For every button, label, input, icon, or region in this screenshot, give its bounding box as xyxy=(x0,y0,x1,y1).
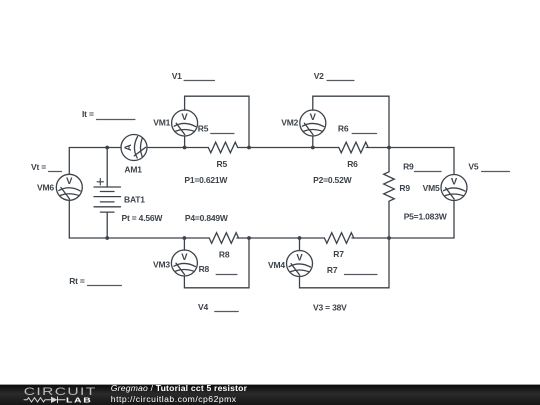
svg-text:R8: R8 xyxy=(199,264,210,274)
voltmeter VM6 xyxy=(56,174,82,200)
svg-text:R9: R9 xyxy=(403,162,414,172)
wire VM1 loop xyxy=(184,136,186,148)
svg-text:Vt =: Vt = xyxy=(31,162,46,172)
wire left vertical xyxy=(68,148,70,175)
resistor R7 xyxy=(324,233,353,244)
ammeter AM1 xyxy=(121,135,147,161)
svg-text:R8: R8 xyxy=(219,249,230,259)
voltmeter VM4 xyxy=(287,251,313,277)
voltmeter VM3 xyxy=(171,250,197,276)
voltmeter VM5 xyxy=(441,175,467,201)
svg-text:It =: It = xyxy=(82,109,94,119)
svg-text:V: V xyxy=(66,176,73,187)
svg-text:R7: R7 xyxy=(333,249,344,259)
svg-text:BAT1: BAT1 xyxy=(124,195,145,205)
battery BAT1 xyxy=(94,179,121,213)
svg-text:V: V xyxy=(181,252,188,263)
svg-text:V4: V4 xyxy=(198,302,208,312)
svg-text:Pt = 4.56W: Pt = 4.56W xyxy=(122,213,164,223)
logo diode xyxy=(57,397,59,403)
svg-text:R9: R9 xyxy=(399,183,410,193)
voltmeter VM1 xyxy=(172,110,198,136)
svg-text:R5: R5 xyxy=(198,124,209,134)
svg-text:P4=0.849W: P4=0.849W xyxy=(185,213,229,223)
svg-text:V: V xyxy=(181,112,188,123)
wire VM4 loop xyxy=(299,238,301,251)
svg-text:V: V xyxy=(451,176,458,187)
svg-text:VM3: VM3 xyxy=(153,259,170,269)
svg-text:V5: V5 xyxy=(468,162,478,172)
resistor R9 xyxy=(384,172,395,201)
logo resistor squiggle xyxy=(24,397,65,403)
svg-text:P1=0.621W: P1=0.621W xyxy=(184,175,228,185)
svg-text:VM5: VM5 xyxy=(423,183,440,193)
svg-text:VM4: VM4 xyxy=(268,260,285,270)
resistor R8 xyxy=(209,233,238,244)
wire VM3 loop xyxy=(183,238,185,250)
voltmeter VM2 xyxy=(300,110,326,136)
junction dots xyxy=(105,146,391,240)
svg-text:V: V xyxy=(310,112,317,123)
svg-text:P5=1.083W: P5=1.083W xyxy=(404,211,448,221)
svg-text:http://circuitlab.com/cp62pmx: http://circuitlab.com/cp62pmx xyxy=(111,394,237,404)
wire bottom main xyxy=(69,237,209,239)
resistor R5 xyxy=(208,142,237,153)
wire battery branch xyxy=(106,148,108,188)
svg-text:R5: R5 xyxy=(217,159,228,169)
svg-text:VM1: VM1 xyxy=(153,118,170,128)
svg-text:P2=0.52W: P2=0.52W xyxy=(313,175,353,185)
blank underscore lines xyxy=(49,81,510,312)
svg-text:LAB: LAB xyxy=(66,396,92,404)
resistor R6 xyxy=(339,142,368,153)
svg-text:Gregmao / Tutorial cct 5 resis: Gregmao / Tutorial cct 5 resistor xyxy=(111,383,248,393)
wire R9 branch xyxy=(388,148,390,172)
svg-text:VM2: VM2 xyxy=(281,118,298,128)
svg-text:V2: V2 xyxy=(314,71,324,81)
svg-text:A: A xyxy=(123,144,134,151)
svg-text:Rt =: Rt = xyxy=(69,276,85,286)
svg-text:V3 = 38V: V3 = 38V xyxy=(313,303,347,313)
svg-text:VM6: VM6 xyxy=(37,182,54,192)
svg-text:R7: R7 xyxy=(327,265,338,275)
svg-text:R6: R6 xyxy=(338,124,349,134)
wire right vertical xyxy=(453,148,455,175)
svg-text:V1: V1 xyxy=(172,71,182,81)
svg-text:V: V xyxy=(296,252,303,263)
wire VM2 loop xyxy=(312,136,314,148)
wire top main xyxy=(69,147,121,149)
svg-text:R6: R6 xyxy=(347,159,358,169)
svg-text:AM1: AM1 xyxy=(124,165,142,175)
